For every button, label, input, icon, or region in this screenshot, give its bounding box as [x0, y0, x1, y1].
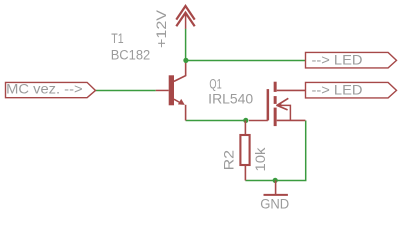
node C junction dot (ground net)	[273, 178, 278, 183]
svg-text:BC182: BC182	[111, 48, 151, 63]
svg-text:MC vez. -->: MC vez. -->	[6, 81, 83, 96]
wire: T1 emitter to node B	[186, 119, 247, 121]
body arrow upper barb	[277, 98, 288, 105]
node B junction dot	[243, 118, 248, 123]
output flag LED 2	[306, 82, 397, 97]
body arrow lower barb	[277, 105, 288, 110]
transistor T1 (NPN BC182)	[156, 60, 186, 120]
supply +12V chevron symbol	[176, 6, 194, 29]
wire: node A to LED flag 1	[186, 59, 306, 61]
body arrow tip fill	[276, 103, 281, 108]
emitter diagonal	[174, 99, 180, 102]
collector path	[174, 60, 186, 81]
gate pin	[249, 119, 268, 121]
svg-text:--> LED: --> LED	[312, 83, 363, 98]
channel bar middle	[274, 96, 277, 104]
resistor R2	[240, 120, 249, 180]
wire: MC flag to T1 base	[96, 89, 156, 91]
output flag LED 1	[306, 52, 397, 67]
svg-text:R2: R2	[222, 150, 237, 171]
gate line	[267, 89, 270, 120]
svg-text:IRL540: IRL540	[208, 92, 253, 107]
mosfet Q1 (IRL540)	[249, 82, 306, 126]
bottom pin	[244, 165, 246, 180]
svg-text:T1: T1	[111, 31, 123, 46]
svg-text:Q1: Q1	[209, 77, 221, 92]
wire: +12V stem to node A	[185, 29, 187, 61]
channel bar bottom	[274, 108, 277, 127]
wire: ground net from R2 bottom to Q1 source	[245, 121, 305, 181]
body connection shaft	[276, 105, 290, 120]
emitter arrowhead	[178, 99, 185, 105]
svg-text:+12V: +12V	[154, 10, 169, 48]
svg-text:GND: GND	[260, 196, 289, 211]
base bar	[169, 75, 174, 105]
channel bar top	[274, 82, 277, 92]
node A junction dot	[183, 58, 188, 63]
ground symbol	[264, 180, 288, 194]
svg-text:10k: 10k	[253, 147, 268, 171]
body box	[240, 135, 249, 165]
svg-text:--> LED: --> LED	[312, 53, 363, 68]
input flag MC vez.	[6, 82, 96, 97]
top pin	[244, 120, 246, 135]
base pin	[156, 89, 169, 91]
source pin	[277, 119, 306, 121]
drain pin	[277, 89, 306, 91]
emitter vertical	[185, 105, 187, 121]
